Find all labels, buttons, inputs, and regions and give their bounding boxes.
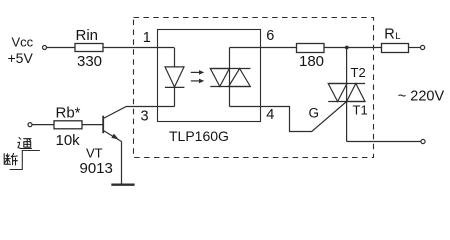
LED D1 triangle — [165, 67, 184, 87]
step waveform — [10, 151, 40, 170]
LED D1 cathode bar — [165, 86, 185, 88]
label duan (off) hanzi — [4, 153, 17, 165]
optocoupler module dashed boundary — [134, 18, 374, 158]
svg-text:10k: 10k — [56, 132, 81, 149]
svg-text:4: 4 — [266, 107, 274, 123]
wire pin 4 to gate — [230, 102, 347, 132]
light arrow lower — [191, 79, 204, 84]
svg-text:6: 6 — [266, 28, 274, 44]
resistor RL — [382, 44, 409, 53]
svg-text:9013: 9013 — [80, 160, 113, 177]
terminal Vcc input — [43, 46, 47, 50]
light arrow upper — [191, 70, 204, 75]
wire triac T1 down — [347, 141, 421, 143]
resistor Rb — [54, 121, 82, 129]
label RL — [384, 27, 400, 43]
LED D1 cathode lead — [174, 87, 176, 106]
svg-text:180: 180 — [299, 53, 324, 70]
transistor VT emitter — [103, 130, 122, 141]
terminal AC top — [421, 45, 425, 49]
svg-text:~ 220V: ~ 220V — [398, 88, 445, 104]
wire Rin to pin 1 — [103, 47, 174, 49]
transistor VT emitter arrowhead — [111, 134, 119, 140]
terminal AC bottom — [421, 139, 425, 143]
wire pin 6 to 180 resistor — [230, 47, 297, 49]
label tong (on) hanzi — [18, 138, 32, 149]
phototriac bottom bar — [210, 86, 250, 88]
node junction dot — [345, 46, 349, 50]
svg-text:VT: VT — [86, 146, 103, 161]
svg-text:Rin: Rin — [76, 27, 99, 44]
svg-text:G: G — [309, 105, 320, 120]
wire Rb to base — [82, 124, 103, 126]
resistor 180 — [297, 44, 325, 53]
svg-text:T1: T1 — [353, 102, 368, 117]
LED D1 anode lead — [174, 48, 176, 68]
triac bottom bar — [328, 101, 365, 103]
resistor Rin — [75, 44, 103, 52]
svg-text:+5V: +5V — [8, 50, 34, 66]
phototriac top bar — [210, 68, 250, 70]
wire emitter to ground — [121, 142, 123, 185]
ground — [111, 183, 134, 185]
svg-text:1: 1 — [143, 30, 151, 46]
svg-text:330: 330 — [77, 53, 102, 70]
transistor VT base bar — [102, 116, 104, 134]
svg-text:L: L — [395, 31, 400, 42]
terminal control input — [28, 123, 32, 127]
wire 180 to RL — [324, 47, 382, 49]
phototriac main lead — [229, 48, 231, 107]
svg-text:3: 3 — [141, 109, 149, 125]
svg-text:Vcc: Vcc — [12, 35, 34, 50]
node Vcc label — [8, 35, 34, 67]
triac T main lead — [346, 48, 348, 142]
svg-text:TLP160G: TLP160G — [169, 128, 229, 144]
svg-text:T2: T2 — [351, 65, 366, 80]
phototriac left triangle — [210, 69, 229, 87]
optocoupler chip body U1 — [158, 30, 261, 122]
svg-text:Rb*: Rb* — [56, 105, 81, 122]
svg-text:R: R — [384, 27, 394, 43]
triac right triangle — [347, 84, 365, 102]
wire Vcc to Rin — [47, 47, 75, 49]
transistor VT collector — [103, 107, 174, 119]
wire input to Rb — [32, 124, 54, 126]
phototriac right triangle — [229, 69, 251, 87]
triac left triangle — [328, 84, 347, 102]
wire RL to right terminal — [409, 47, 421, 49]
triac top bar — [328, 83, 365, 85]
